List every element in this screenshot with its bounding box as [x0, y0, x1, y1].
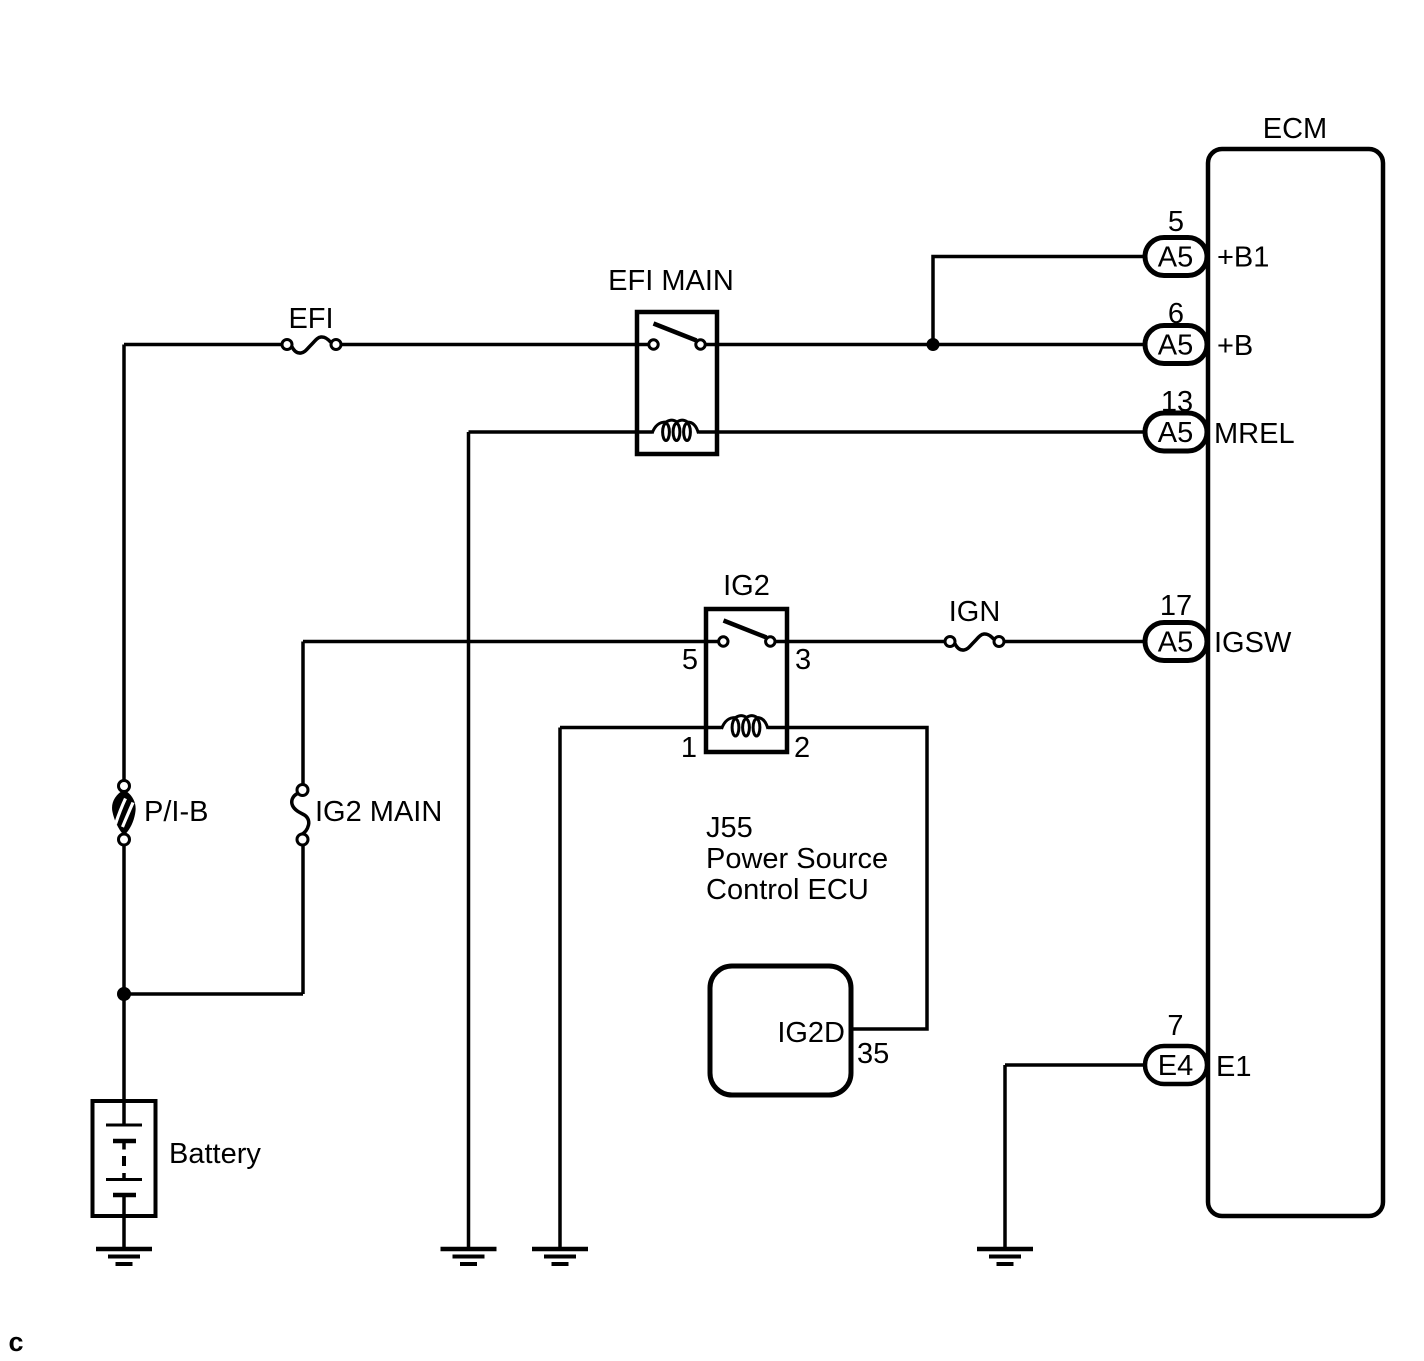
- svg-text:E4: E4: [1158, 1050, 1193, 1082]
- svg-text:Power Source: Power Source: [706, 843, 888, 875]
- svg-text:E1: E1: [1216, 1051, 1251, 1083]
- svg-text:IG2D: IG2D: [777, 1017, 845, 1049]
- svg-text:ECM: ECM: [1263, 113, 1327, 145]
- svg-text:A5: A5: [1158, 417, 1193, 449]
- svg-text:IGN: IGN: [949, 596, 1001, 628]
- svg-text:+B1: +B1: [1217, 242, 1269, 274]
- svg-text:c: c: [9, 1327, 24, 1357]
- svg-text:13: 13: [1161, 386, 1193, 418]
- svg-text:1: 1: [681, 732, 697, 764]
- svg-text:IG2: IG2: [723, 570, 770, 602]
- svg-text:17: 17: [1160, 590, 1192, 622]
- svg-text:7: 7: [1167, 1010, 1183, 1042]
- svg-text:6: 6: [1168, 298, 1184, 330]
- svg-text:IG2 MAIN: IG2 MAIN: [315, 796, 442, 828]
- svg-text:P/I-B: P/I-B: [144, 796, 208, 828]
- svg-text:J55: J55: [706, 812, 753, 844]
- svg-text:EFI: EFI: [288, 303, 333, 335]
- svg-text:EFI MAIN: EFI MAIN: [608, 265, 734, 297]
- svg-text:5: 5: [682, 644, 698, 676]
- svg-text:+B: +B: [1217, 330, 1253, 362]
- svg-text:IGSW: IGSW: [1214, 627, 1292, 659]
- svg-text:2: 2: [794, 732, 810, 764]
- svg-text:5: 5: [1168, 206, 1184, 238]
- svg-text:Battery: Battery: [169, 1138, 261, 1170]
- svg-text:A5: A5: [1158, 330, 1193, 362]
- svg-text:A5: A5: [1158, 627, 1193, 659]
- svg-text:Control ECU: Control ECU: [706, 874, 869, 906]
- svg-text:MREL: MREL: [1214, 418, 1295, 450]
- svg-text:35: 35: [857, 1038, 889, 1070]
- svg-text:3: 3: [795, 644, 811, 676]
- svg-text:A5: A5: [1158, 242, 1193, 274]
